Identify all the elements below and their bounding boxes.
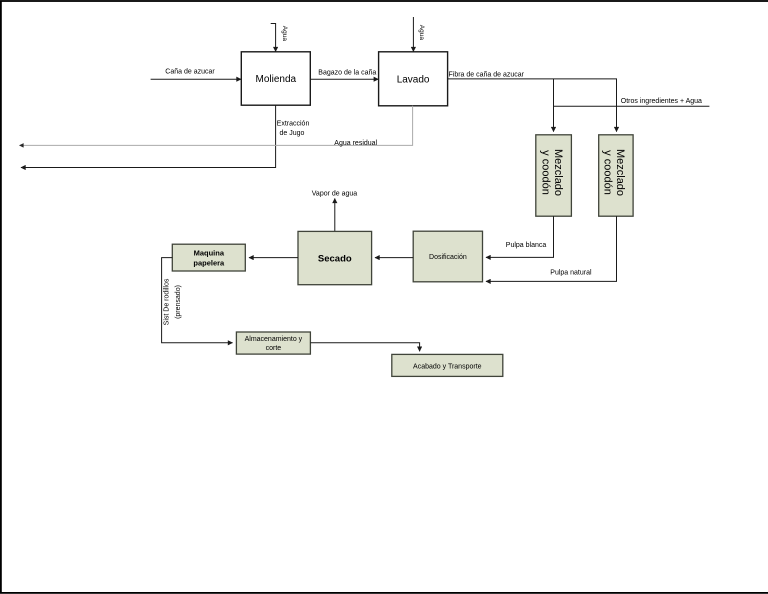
wire: Caña de azucar into Molienda bbox=[151, 78, 241, 80]
wire: Agua residual (gray), Lavado down then left arrow bbox=[20, 106, 413, 146]
svg-text:Secado: Secado bbox=[318, 253, 352, 264]
svg-text:Mezclado: Mezclado bbox=[614, 149, 626, 196]
process box: Lavado bbox=[379, 52, 448, 106]
svg-text:Bagazo de la caña: Bagazo de la caña bbox=[318, 70, 376, 77]
svg-text:(prensado): (prensado) bbox=[175, 285, 182, 319]
svg-text:Acabado y Transporte: Acabado y Transporte bbox=[413, 363, 482, 370]
svg-text:de Jugo: de Jugo bbox=[280, 130, 305, 137]
wire: Secado to Maquina papelera bbox=[249, 257, 298, 259]
process box: Molienda bbox=[241, 52, 310, 105]
wire: Bagazo de la caña, Molienda to Lavado bbox=[310, 78, 378, 80]
svg-text:papelera: papelera bbox=[193, 259, 225, 268]
wire: Pulpa natural, Mezclado 2 down then left into Dosificación bbox=[486, 216, 617, 281]
process box: Mezclado y coodón 2 bbox=[599, 135, 633, 216]
svg-text:Sist De rodillos: Sist De rodillos bbox=[164, 278, 171, 325]
svg-text:Dosificación: Dosificación bbox=[429, 254, 467, 261]
process box: Acabado y Transporte bbox=[392, 354, 503, 376]
wire: Agua into Molienda (elbow) bbox=[271, 24, 276, 52]
wire: Vapor de agua up from Secado bbox=[334, 199, 336, 232]
process box: Dosificación bbox=[413, 231, 482, 282]
wire: Otros ingredientes + Agua bbox=[554, 105, 710, 107]
svg-text:Agua: Agua bbox=[418, 25, 425, 41]
svg-text:Fibra de caña de azucar: Fibra de caña de azucar bbox=[449, 72, 525, 79]
svg-text:Agua residual: Agua residual bbox=[334, 140, 377, 147]
svg-text:Pulpa natural: Pulpa natural bbox=[550, 270, 592, 277]
process box: Secado bbox=[298, 231, 372, 284]
svg-text:Molienda: Molienda bbox=[256, 74, 297, 85]
wire: Agua into Lavado bbox=[412, 17, 414, 52]
svg-text:Otros ingredientes + Agua: Otros ingredientes + Agua bbox=[621, 98, 702, 105]
svg-text:y coodón: y coodón bbox=[602, 150, 614, 195]
process box: Maquina papelera bbox=[172, 244, 245, 271]
process box: Mezclado y coodón 1 bbox=[536, 135, 572, 216]
wire: Maquina papelera left, down, to Almacenamiento y corte bbox=[162, 258, 233, 343]
svg-text:Maquina: Maquina bbox=[194, 249, 225, 258]
svg-text:Pulpa blanca: Pulpa blanca bbox=[506, 242, 547, 249]
wire: Dosificación to Secado bbox=[375, 257, 413, 259]
wire: tee down to Mezclado 1 bbox=[553, 79, 555, 132]
process box: Almacenamiento y corte bbox=[236, 332, 310, 354]
svg-text:y coodón: y coodón bbox=[539, 150, 551, 195]
svg-text:corte: corte bbox=[266, 345, 282, 352]
svg-text:Lavado: Lavado bbox=[397, 75, 430, 86]
wire: Extracción de Jugo, Molienda down then left arrow bbox=[21, 105, 276, 167]
wire: Pulpa blanca, Mezclado 1 down then left into Dosificación bbox=[486, 216, 554, 257]
svg-text:Agua: Agua bbox=[281, 26, 288, 42]
wire: Almacenamiento right, down into Acabado y Transporte bbox=[310, 343, 419, 351]
svg-text:Extracción: Extracción bbox=[277, 121, 310, 128]
svg-text:Caña de azucar: Caña de azucar bbox=[165, 69, 215, 76]
svg-text:Mezclado: Mezclado bbox=[552, 149, 564, 196]
svg-text:Almacenamiento y: Almacenamiento y bbox=[245, 336, 303, 343]
wire: Fibra de caña de azucar, Lavado right then down to Mezclado 2 bbox=[448, 79, 617, 132]
svg-text:Vapor de agua: Vapor de agua bbox=[312, 191, 358, 198]
